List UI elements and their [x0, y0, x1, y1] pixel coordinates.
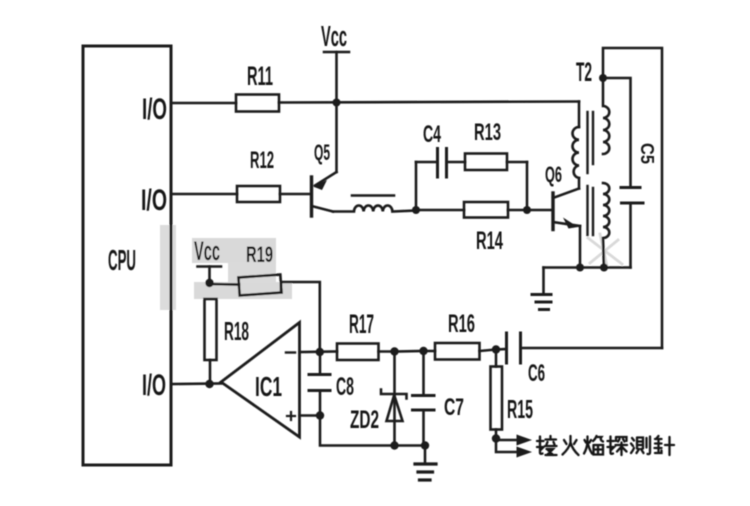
- ground G2: [415, 464, 436, 480]
- node junction plus/C8: [316, 411, 324, 419]
- wire C5 bottom lead: [629, 203, 632, 268]
- transformer T2 primary lead: [578, 102, 581, 128]
- node junction R16/C6/R15: [492, 345, 500, 353]
- svg-text:Q6: Q6: [545, 162, 562, 187]
- resistor R16: [435, 343, 480, 360]
- svg-text:T2: T2: [576, 57, 592, 87]
- CPU block U-CPU: [83, 46, 171, 465]
- svg-text:I/O: I/O: [142, 93, 167, 126]
- wire R16 to C6 junction: [480, 350, 497, 352]
- inductor L1: [333, 206, 416, 212]
- node junction L1/C4/R14: [412, 206, 420, 214]
- svg-text:R11: R11: [247, 61, 273, 91]
- svg-text:C8: C8: [336, 373, 354, 401]
- op-amp IC1: [221, 323, 300, 438]
- capacitor C7 top lead: [422, 351, 425, 396]
- watermark scribble near T2 bottom: [588, 234, 622, 266]
- wire R11 to Vcc junction and T2 primary: [279, 102, 579, 103]
- wire C6 to right riser: [521, 347, 663, 350]
- node junction R11/Vcc: [333, 99, 341, 107]
- wire riser to C4 branch: [415, 162, 418, 210]
- wire junction to C7: [395, 350, 424, 353]
- node junction Q6 emitter: [576, 264, 584, 272]
- svg-text:R19: R19: [246, 242, 273, 267]
- node junction ZD2 bottom: [390, 441, 398, 449]
- IC1 plus pin mark: [287, 412, 295, 420]
- svg-text:C6: C6: [528, 360, 545, 387]
- transistor Q5: [312, 103, 337, 216]
- inductor L1 core bar: [352, 194, 394, 197]
- svg-text:C4: C4: [423, 121, 441, 148]
- probe arrow 2: [517, 447, 533, 458]
- transformer T2 secondary lower winding: [603, 183, 609, 268]
- resistor R12: [237, 186, 280, 202]
- capacitor C7: [413, 396, 435, 411]
- node junction ZD2 top: [390, 347, 398, 355]
- wire R13 to right corner: [507, 161, 527, 164]
- probe connector bracket: [496, 439, 517, 453]
- watermark gray patch D: [194, 282, 292, 299]
- wire C4 to R13: [447, 161, 466, 164]
- svg-text:Q5: Q5: [314, 140, 330, 165]
- svg-text:Vcc: Vcc: [194, 236, 220, 266]
- svg-text:R14: R14: [476, 227, 503, 255]
- wire R17 to ZD2 junction: [379, 350, 395, 353]
- node junction R15 probe: [492, 434, 500, 442]
- svg-text:I/O: I/O: [142, 369, 166, 402]
- node junction C7 bottom: [421, 441, 429, 449]
- resistor R11: [236, 95, 279, 112]
- watermark gray patch C: [228, 263, 276, 282]
- svg-text:IC1: IC1: [255, 371, 282, 402]
- node junction Vcc2/R19/R18: [205, 279, 213, 287]
- probe arrow 1: [517, 435, 533, 446]
- capacitor C4: [438, 149, 447, 178]
- wire down to ground G1: [542, 268, 545, 295]
- resistor R15 top lead: [495, 350, 498, 367]
- Vcc symbol (lower): [198, 265, 222, 268]
- zener diode ZD2: [381, 390, 407, 446]
- capacitor C5: [621, 188, 643, 204]
- wire C7 junction to R16: [424, 350, 436, 353]
- wire I/O3 to IC1: [171, 382, 221, 385]
- wire R14 to junction: [508, 209, 527, 212]
- wire IC1 plus input: [300, 414, 321, 417]
- capacitor C8 bottom lead: [319, 391, 322, 416]
- wire I/O1 to R11: [171, 102, 236, 105]
- watermark gray patch B: [192, 238, 276, 263]
- node junction secondary bottom: [600, 264, 608, 272]
- char 探: [608, 437, 628, 456]
- resistor R17: [337, 344, 379, 361]
- svg-text:R18: R18: [224, 316, 249, 346]
- transformer T2 secondary upper winding: [603, 78, 609, 154]
- resistor R14: [464, 202, 508, 218]
- svg-text:CPU: CPU: [108, 245, 136, 277]
- transformer T2 core bars: [588, 112, 594, 235]
- wire I/O2 to R12: [171, 193, 237, 196]
- capacitor C8: [309, 375, 330, 391]
- svg-text:I/O: I/O: [141, 184, 167, 217]
- node junction R18/IO3: [205, 380, 213, 388]
- resistor R13: [465, 154, 507, 171]
- char 针: [655, 436, 675, 455]
- wire junction to R19: [210, 283, 240, 286]
- char 火: [563, 436, 579, 455]
- wire junction to Q6 base: [527, 209, 553, 212]
- wire plus junction down to bottom rail: [320, 416, 425, 446]
- wire junction to C6: [496, 348, 507, 351]
- svg-text:R17: R17: [349, 309, 374, 339]
- svg-text:ZD2: ZD2: [350, 406, 379, 434]
- wire corner down to main run: [526, 162, 529, 210]
- wire R18 bottom lead: [209, 360, 212, 384]
- wire emitter ground run: [544, 266, 631, 269]
- svg-text:R12: R12: [250, 147, 274, 174]
- capacitor C7 bottom lead: [422, 410, 425, 446]
- capacitor C6: [507, 333, 521, 363]
- wire ZD2 top lead: [393, 352, 396, 395]
- svg-text:Vcc: Vcc: [321, 21, 347, 53]
- svg-text:R13: R13: [474, 119, 501, 146]
- svg-text:C7: C7: [444, 394, 464, 421]
- node junction C7 top: [419, 347, 427, 355]
- resistor R19: [238, 275, 281, 296]
- ground G1: [532, 295, 551, 310]
- wire R19 to feedback riser: [281, 282, 320, 352]
- IC1 minus pin mark: [286, 351, 295, 353]
- wire top rectangle: [603, 48, 662, 348]
- char 测: [631, 437, 650, 455]
- char 接: [537, 436, 557, 455]
- transformer T2 primary winding: [573, 127, 580, 178]
- wire R12 to Q2 base: [280, 193, 311, 196]
- resistor R15 bottom lead: [495, 430, 498, 439]
- resistor R15: [491, 367, 503, 430]
- wire L1 junction to R14: [416, 209, 464, 212]
- char 焰: [584, 436, 603, 455]
- capacitor C8 top lead: [319, 352, 322, 375]
- chinese label: 接火焰探测针 (flame probe): [537, 436, 674, 455]
- wire to C4: [416, 161, 438, 164]
- wire IC1 minus input: [300, 350, 338, 353]
- ground G2 lead: [424, 446, 427, 464]
- node junction minus/R19/C8/R17: [316, 348, 324, 356]
- transistor Q6: [553, 178, 580, 268]
- watermark gray patch A: [160, 225, 176, 310]
- wire secondary top to C5: [603, 78, 631, 188]
- svg-text:R15: R15: [507, 394, 533, 424]
- node junction R13/R14: [523, 206, 531, 214]
- svg-text:R16: R16: [448, 310, 475, 338]
- resistor R18: [205, 299, 217, 360]
- Vcc symbol (top): [324, 51, 349, 54]
- svg-text:C5: C5: [637, 143, 657, 164]
- node junction T2 secondary top: [599, 74, 607, 82]
